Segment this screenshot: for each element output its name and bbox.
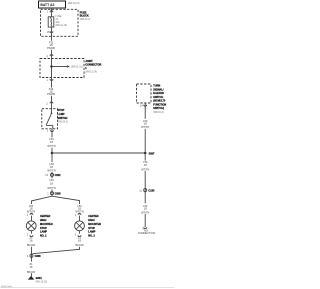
- wire label F32 18 PK/DB: [47, 40, 55, 50]
- wire label Z1 18 BK/OR lamp2: [75, 236, 83, 248]
- wire BATT A3 to fuse: [51, 8, 53, 17]
- wire lamp1 down to merge: [31, 247, 33, 254]
- wire label L50 18 WT/TN: [141, 204, 149, 215]
- wire to splice S307: [144, 129, 146, 153]
- wire label L50 18 WT/TN: [47, 178, 55, 190]
- svg-text:WT/TN: WT/TN: [47, 186, 55, 190]
- node splice S307: [144, 152, 155, 156]
- wire label L50 18 WT/TN: [47, 137, 55, 148]
- svg-text:(8W-52-2): (8W-52-2): [153, 112, 164, 114]
- svg-text:LAMP: LAMP: [88, 231, 95, 234]
- svg-text:TURN: TURN: [153, 85, 160, 88]
- svg-text:(8W-11-16): (8W-11-16): [71, 67, 83, 69]
- svg-text:STOP: STOP: [40, 227, 47, 230]
- wire joint connector to label: [51, 67, 53, 88]
- svg-text:HAZARD: HAZARD: [153, 92, 164, 95]
- svg-text:BK/OR: BK/OR: [27, 270, 35, 274]
- svg-text:NO. 1: NO. 1: [40, 235, 47, 238]
- wire to stop lamp switch: [51, 96, 53, 109]
- svg-text:S307: S307: [149, 152, 155, 155]
- svg-text:(8W-12-14): (8W-12-14): [85, 71, 97, 73]
- fuse F13 10A: [48, 17, 54, 27]
- wire below left splice: [51, 153, 53, 162]
- wire label L50 18 WT/TN: [47, 162, 55, 173]
- svg-text:SWITCH: SWITCH: [58, 117, 68, 120]
- wire label F32 18 PK/DB: [47, 87, 55, 96]
- svg-text:MOUNTED: MOUNTED: [88, 223, 101, 226]
- node splice in joint connector: [50, 65, 53, 68]
- stop lamp switch contacts: [46, 109, 53, 129]
- pin 14 of turn signal switch: [140, 105, 147, 108]
- svg-text:PK/DB: PK/DB: [47, 92, 55, 96]
- lamp2 name label: [88, 215, 101, 237]
- wire fuse to label F32: [51, 27, 53, 41]
- pin 16 of fuse block: [47, 31, 53, 34]
- wire stub above C308: [51, 190, 53, 192]
- svg-text:WT/TN: WT/TN: [27, 209, 35, 213]
- svg-text:WT/TN: WT/TN: [141, 125, 149, 129]
- svg-text:CENTER: CENTER: [88, 215, 98, 218]
- wire switch to label: [51, 129, 53, 138]
- svg-text:BLOCK: BLOCK: [80, 15, 89, 18]
- wire stub below C202: [51, 177, 53, 179]
- battery feed box BATT A3: [39, 1, 66, 8]
- bottom rule: [0, 287, 174, 289]
- svg-text:STOP: STOP: [88, 227, 95, 230]
- svg-text:WT/TN: WT/TN: [75, 209, 83, 213]
- pin 2 of stop lamp switch: [46, 102, 53, 105]
- svg-text:CONNECTOR: CONNECTOR: [85, 64, 101, 67]
- wire below C133: [144, 192, 146, 203]
- pin 1 of joint connector: [46, 79, 53, 82]
- turn signal hazard switch dashed box: [137, 84, 152, 103]
- joint connector name label: [85, 60, 101, 73]
- wire lamp2 merge diagonal: [33, 247, 80, 254]
- reference (8W-10-15): [68, 3, 80, 5]
- svg-text:(IN MULTI-: (IN MULTI-: [153, 100, 165, 103]
- connector C308: [47, 191, 61, 196]
- stop lamp switch name label: [58, 109, 69, 123]
- stop lamp switch dashed box: [42, 109, 58, 129]
- turn signal switch name label: [153, 85, 166, 114]
- svg-text:C133: C133: [148, 189, 155, 192]
- wire to no connection: [144, 214, 146, 227]
- wire label L50 18 WT/TN lamp2: [75, 204, 83, 213]
- svg-text:(8W-33-2): (8W-33-2): [58, 122, 69, 124]
- svg-text:C308: C308: [35, 255, 42, 258]
- ground G301: [28, 276, 47, 284]
- lamp1 name label: [40, 215, 53, 237]
- svg-text:C308: C308: [55, 193, 62, 196]
- svg-text:HIGH: HIGH: [40, 219, 46, 222]
- svg-text:MOUNTED: MOUNTED: [40, 223, 53, 226]
- svg-text:(8W-15-11): (8W-15-11): [36, 281, 48, 283]
- fuse block name label: [80, 11, 91, 20]
- svg-text:JOINT: JOINT: [85, 60, 93, 63]
- wire label Z1 18 BK/OR ground: [27, 257, 35, 273]
- pin 2 of lamp1: [27, 231, 33, 237]
- lamp CHMSL no.2: [75, 221, 85, 231]
- fuse block dashed box: [41, 9, 79, 36]
- fuse value labels: [55, 16, 67, 27]
- connector C308 ground side: [27, 253, 41, 258]
- svg-text:SIGNAL/: SIGNAL/: [153, 88, 163, 91]
- connector C133: [139, 188, 155, 193]
- svg-text:SWITCH: SWITCH: [153, 96, 163, 99]
- svg-text:FUNCTION: FUNCTION: [153, 103, 166, 106]
- joint connector dashed box: [40, 59, 84, 78]
- svg-text:(8W-12-2): (8W-12-2): [80, 19, 91, 21]
- svg-text:PK/DB: PK/DB: [47, 46, 55, 50]
- wire label Z1 18 BK/OR lamp1: [27, 236, 35, 248]
- svg-text:LAMP: LAMP: [40, 231, 47, 234]
- svg-text:LAMP: LAMP: [58, 113, 65, 116]
- arrow to other circuits: [53, 65, 83, 68]
- svg-text:STOP: STOP: [58, 109, 65, 112]
- wire to splice S307 bus: [51, 148, 53, 153]
- wire label L50 18 WT/TN lamp1: [27, 204, 35, 213]
- wire to ground: [31, 273, 33, 276]
- pin 1 of stop lamp switch: [47, 129, 53, 132]
- wire label L50 18 WT/TN: [141, 119, 149, 129]
- svg-text:CONNECTION: CONNECTION: [138, 231, 156, 235]
- wire to joint connector: [51, 50, 53, 67]
- wire below S307: [144, 153, 146, 161]
- wire turn switch to label: [144, 103, 146, 119]
- wire stub above C202: [51, 172, 53, 173]
- pin 1 of lamp2: [75, 213, 81, 221]
- svg-text:HIGH: HIGH: [88, 219, 94, 222]
- wire fork to both lamps: [32, 195, 80, 204]
- svg-text:10A: 10A: [55, 21, 60, 24]
- svg-text:SWITCH): SWITCH): [153, 107, 164, 110]
- wire label L50 18 WT/TN: [141, 160, 149, 172]
- svg-text:(8W-10-15): (8W-10-15): [68, 3, 80, 5]
- lamp CHMSL no.1: [26, 221, 36, 231]
- svg-text:C202: C202: [55, 174, 62, 177]
- pin 4 of joint connector: [46, 55, 53, 59]
- pin 2 of lamp2: [75, 231, 81, 237]
- svg-text:G301: G301: [36, 277, 43, 280]
- svg-text:(8W-11-16): (8W-11-16): [55, 25, 67, 27]
- node splice junction left: [51, 152, 54, 155]
- drawing number: [1, 285, 13, 288]
- svg-text:BATT A3: BATT A3: [40, 3, 54, 7]
- svg-text:WT/TN: WT/TN: [141, 210, 149, 214]
- svg-text:BK/OR: BK/OR: [75, 243, 83, 247]
- pin 1 of lamp1: [27, 213, 33, 221]
- svg-text:L50: L50: [49, 178, 54, 182]
- svg-text:WT/TN: WT/TN: [141, 168, 149, 172]
- svg-text:FUSE: FUSE: [55, 16, 62, 18]
- wire horizontal bus to S307: [52, 152, 145, 154]
- connector C202: [45, 173, 61, 178]
- pin no connection: [138, 227, 156, 235]
- svg-text:BK/OR: BK/OR: [27, 243, 35, 247]
- svg-text:NO. 2: NO. 2: [88, 235, 95, 238]
- wire long segment to C133: [144, 171, 146, 188]
- svg-text:WT/TN: WT/TN: [47, 168, 55, 172]
- pin 1 of fuse block: [47, 11, 53, 14]
- svg-text:CENTER: CENTER: [40, 215, 50, 218]
- svg-text:WT/TN: WT/TN: [47, 144, 55, 148]
